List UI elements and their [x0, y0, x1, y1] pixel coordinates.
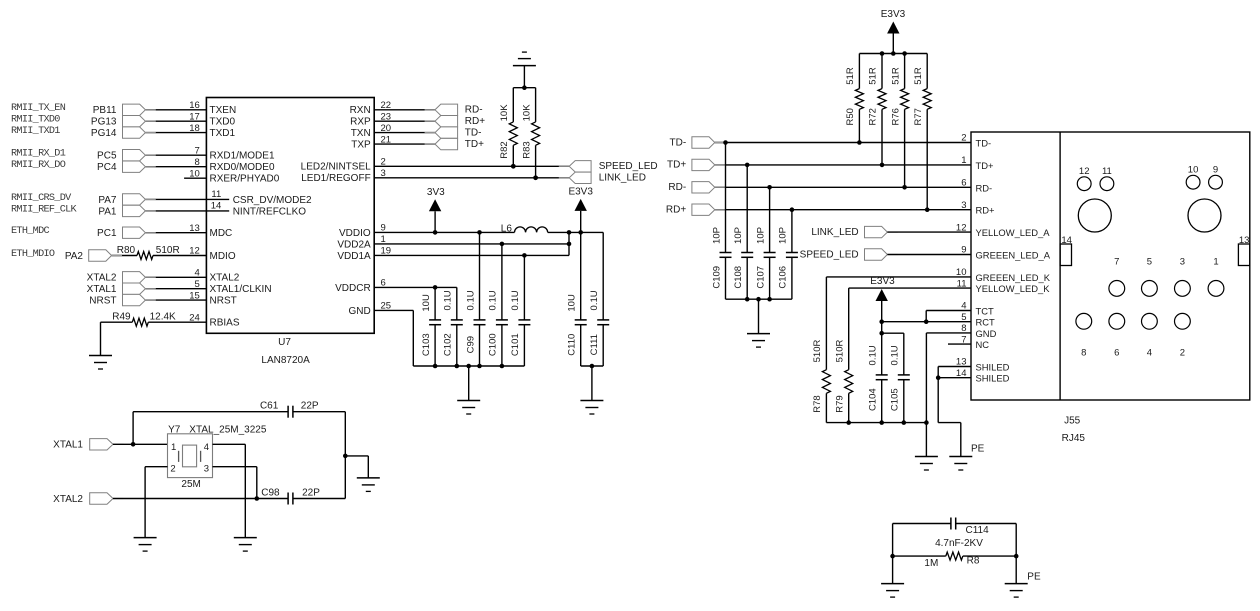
svg-text:CSR_DV/MODE2: CSR_DV/MODE2 [233, 195, 312, 206]
svg-text:RJ45: RJ45 [1062, 433, 1086, 444]
svg-text:10P: 10P [733, 227, 744, 244]
svg-text:8: 8 [1081, 348, 1086, 359]
svg-text:PC1: PC1 [97, 228, 117, 239]
svg-text:510R: 510R [834, 340, 845, 363]
svg-text:RMII_TXD1: RMII_TXD1 [11, 126, 60, 137]
svg-text:R49: R49 [112, 312, 131, 323]
svg-text:8: 8 [961, 323, 966, 334]
svg-text:C104: C104 [868, 388, 879, 411]
svg-text:PC4: PC4 [97, 162, 117, 173]
svg-text:PG13: PG13 [91, 117, 117, 128]
svg-text:16: 16 [189, 100, 200, 111]
svg-text:0.1U: 0.1U [465, 290, 476, 310]
svg-text:R79: R79 [834, 395, 845, 412]
svg-text:11: 11 [211, 189, 221, 200]
svg-text:SHILED: SHILED [976, 373, 1010, 384]
svg-text:PB11: PB11 [93, 105, 117, 116]
svg-text:2: 2 [961, 133, 966, 144]
svg-text:NRST: NRST [89, 296, 116, 307]
svg-text:NC: NC [976, 339, 990, 350]
svg-text:PE: PE [971, 444, 985, 455]
svg-text:PA2: PA2 [65, 251, 84, 262]
svg-text:10: 10 [1188, 164, 1199, 175]
svg-text:RCT: RCT [976, 317, 996, 328]
svg-text:GND: GND [348, 306, 370, 317]
svg-text:22: 22 [381, 100, 392, 111]
svg-text:18: 18 [189, 123, 200, 134]
svg-text:3: 3 [1180, 257, 1185, 268]
svg-text:10U: 10U [567, 294, 578, 312]
svg-text:R77: R77 [913, 108, 924, 125]
svg-text:15: 15 [189, 290, 200, 301]
svg-text:RMII_REF_CLK: RMII_REF_CLK [11, 204, 78, 215]
svg-text:R80: R80 [117, 245, 136, 256]
svg-text:5: 5 [961, 312, 966, 323]
svg-text:GREEEN_LED_K: GREEEN_LED_K [976, 272, 1051, 283]
svg-text:SPEED_LED: SPEED_LED [599, 161, 658, 172]
svg-text:C100: C100 [488, 333, 499, 356]
svg-text:10K: 10K [521, 104, 532, 122]
svg-text:4.7nF-2KV: 4.7nF-2KV [935, 538, 983, 549]
svg-text:24: 24 [189, 312, 200, 323]
svg-text:ETH_MDIO: ETH_MDIO [11, 249, 55, 260]
svg-text:PC5: PC5 [97, 151, 117, 162]
svg-text:RXN: RXN [350, 105, 371, 116]
svg-text:0.1U: 0.1U [868, 345, 879, 365]
svg-text:SPEED_LED: SPEED_LED [800, 249, 859, 260]
svg-text:51R: 51R [890, 67, 901, 85]
svg-text:R78: R78 [812, 395, 823, 412]
svg-text:C108: C108 [733, 266, 744, 289]
svg-text:RD+: RD+ [976, 205, 996, 216]
svg-text:VDD1A: VDD1A [337, 251, 371, 262]
svg-text:RD+: RD+ [666, 205, 686, 216]
svg-text:6: 6 [381, 278, 386, 289]
svg-text:0.1U: 0.1U [890, 345, 901, 365]
svg-text:6: 6 [1114, 348, 1119, 359]
svg-text:0.1U: 0.1U [488, 290, 499, 310]
svg-text:C99: C99 [465, 336, 476, 353]
svg-text:R76: R76 [890, 108, 901, 125]
svg-text:12: 12 [189, 246, 200, 257]
svg-text:1: 1 [1213, 257, 1218, 268]
svg-text:51R: 51R [845, 67, 856, 85]
svg-text:RD-: RD- [668, 182, 686, 193]
svg-text:NRST: NRST [210, 296, 237, 307]
svg-text:RMII_TX_EN: RMII_TX_EN [11, 103, 66, 114]
svg-text:7: 7 [961, 334, 966, 345]
svg-text:10P: 10P [755, 227, 766, 244]
svg-text:PG14: PG14 [91, 128, 117, 139]
svg-text:TXD1: TXD1 [210, 128, 236, 139]
svg-text:14: 14 [211, 201, 222, 212]
svg-text:1: 1 [381, 234, 386, 245]
svg-text:YELLOW_LED_A: YELLOW_LED_A [976, 227, 1051, 238]
svg-text:12: 12 [1079, 166, 1090, 177]
svg-text:51R: 51R [913, 67, 924, 85]
svg-text:XTAL2: XTAL2 [87, 273, 117, 284]
svg-text:2: 2 [1180, 348, 1185, 359]
svg-text:U7: U7 [278, 337, 291, 348]
svg-text:14: 14 [1061, 235, 1072, 246]
svg-text:11: 11 [957, 278, 967, 289]
svg-text:1: 1 [961, 155, 966, 166]
svg-text:C114: C114 [966, 525, 990, 536]
svg-text:C61: C61 [260, 401, 279, 412]
svg-text:C110: C110 [567, 334, 578, 356]
svg-text:ETH_MDC: ETH_MDC [11, 226, 49, 237]
svg-text:0.1U: 0.1U [443, 290, 454, 310]
svg-text:TD-: TD- [465, 127, 482, 138]
svg-text:1M: 1M [924, 558, 938, 569]
svg-text:C106: C106 [778, 266, 789, 289]
svg-text:TD-: TD- [976, 138, 992, 149]
svg-text:R83: R83 [521, 141, 532, 158]
svg-text:VDDIO: VDDIO [339, 228, 371, 239]
svg-text:14: 14 [956, 368, 967, 379]
svg-text:TCT: TCT [976, 306, 994, 317]
svg-text:TD+: TD+ [976, 160, 994, 171]
svg-text:5: 5 [195, 279, 200, 290]
svg-text:LINK_LED: LINK_LED [811, 227, 858, 238]
svg-text:RMII_RX_D1: RMII_RX_D1 [11, 149, 66, 160]
svg-text:RD-: RD- [976, 182, 993, 193]
svg-text:2: 2 [170, 464, 175, 475]
svg-text:3V3: 3V3 [427, 187, 445, 198]
svg-text:RXER/PHYAD0: RXER/PHYAD0 [210, 174, 280, 185]
svg-text:MDC: MDC [210, 228, 233, 239]
svg-text:LED1/REGOFF: LED1/REGOFF [301, 173, 370, 184]
svg-text:R8: R8 [967, 556, 980, 567]
svg-text:GREEEN_LED_A: GREEEN_LED_A [976, 250, 1051, 261]
svg-text:4: 4 [195, 268, 200, 279]
svg-text:PE: PE [1027, 572, 1041, 583]
svg-text:VDD2A: VDD2A [337, 239, 371, 250]
svg-text:TD+: TD+ [465, 139, 484, 150]
svg-text:PA7: PA7 [98, 195, 117, 206]
svg-text:51R: 51R [868, 67, 879, 85]
svg-text:C101: C101 [510, 333, 521, 356]
svg-text:RXD0/MODE0: RXD0/MODE0 [210, 162, 275, 173]
svg-text:E3V3: E3V3 [870, 276, 895, 287]
svg-text:0.1U: 0.1U [589, 290, 600, 310]
svg-text:C102: C102 [443, 333, 454, 356]
svg-text:LAN8720A: LAN8720A [261, 355, 310, 366]
svg-text:E3V3: E3V3 [568, 186, 593, 197]
svg-text:XTAL_25M_3225: XTAL_25M_3225 [189, 425, 267, 436]
svg-text:25: 25 [381, 301, 392, 312]
svg-text:RXD1/MODE1: RXD1/MODE1 [210, 151, 275, 162]
svg-text:13: 13 [1239, 235, 1250, 246]
svg-text:C103: C103 [421, 333, 432, 356]
svg-text:XTAL1: XTAL1 [53, 440, 83, 451]
svg-text:13: 13 [956, 357, 967, 368]
svg-text:3: 3 [204, 464, 209, 475]
svg-text:TXEN: TXEN [210, 105, 237, 116]
svg-text:R82: R82 [499, 141, 510, 158]
svg-text:L6: L6 [501, 224, 513, 235]
svg-text:E3V3: E3V3 [881, 9, 906, 20]
svg-text:10: 10 [189, 168, 200, 179]
svg-text:R72: R72 [868, 108, 879, 125]
svg-text:9: 9 [961, 245, 966, 256]
svg-text:8: 8 [195, 157, 200, 168]
svg-text:1: 1 [171, 442, 176, 453]
svg-text:3: 3 [381, 168, 386, 179]
svg-text:12: 12 [956, 222, 967, 233]
svg-text:7: 7 [1114, 257, 1119, 268]
svg-text:LINK_LED: LINK_LED [599, 173, 646, 184]
svg-text:21: 21 [381, 134, 392, 145]
svg-text:TXD0: TXD0 [210, 117, 236, 128]
svg-text:22P: 22P [301, 401, 319, 412]
svg-text:Y7: Y7 [168, 425, 181, 436]
svg-text:9: 9 [381, 223, 386, 234]
svg-text:3: 3 [961, 200, 966, 211]
svg-text:13: 13 [189, 223, 200, 234]
svg-text:C107: C107 [755, 266, 766, 289]
svg-text:510R: 510R [156, 245, 180, 256]
svg-text:4: 4 [961, 301, 966, 312]
svg-text:RXP: RXP [350, 117, 371, 128]
svg-text:4: 4 [204, 442, 209, 453]
svg-text:10P: 10P [711, 227, 722, 244]
svg-text:C105: C105 [890, 388, 901, 411]
svg-text:VDDCR: VDDCR [335, 283, 371, 294]
svg-text:C98: C98 [261, 487, 280, 498]
svg-text:NINT/REFCLKO: NINT/REFCLKO [233, 206, 307, 217]
svg-text:22P: 22P [302, 487, 320, 498]
svg-text:10K: 10K [499, 104, 510, 122]
svg-text:19: 19 [381, 246, 392, 257]
svg-text:10: 10 [956, 267, 967, 278]
svg-text:0.1U: 0.1U [510, 290, 521, 310]
svg-text:GND: GND [976, 328, 997, 339]
svg-text:23: 23 [381, 111, 392, 122]
svg-text:2: 2 [381, 157, 386, 168]
svg-text:XTAL2: XTAL2 [53, 494, 83, 505]
svg-text:YELLOW_LED_K: YELLOW_LED_K [976, 283, 1051, 294]
svg-text:RMII_TXD0: RMII_TXD0 [11, 115, 60, 126]
svg-text:TXN: TXN [351, 128, 371, 139]
svg-text:6: 6 [961, 178, 966, 189]
svg-text:11: 11 [1102, 166, 1112, 177]
svg-text:TD-: TD- [670, 137, 687, 148]
svg-text:PA1: PA1 [98, 206, 117, 217]
svg-text:5: 5 [1147, 257, 1152, 268]
svg-text:R50: R50 [845, 108, 856, 125]
svg-text:RMII_RX_DO: RMII_RX_DO [11, 160, 66, 171]
svg-text:4: 4 [1147, 348, 1152, 359]
svg-text:RD+: RD+ [465, 116, 485, 127]
svg-text:20: 20 [381, 123, 392, 134]
svg-text:XTAL2: XTAL2 [210, 273, 240, 284]
svg-text:C109: C109 [711, 266, 722, 289]
svg-text:17: 17 [189, 111, 200, 122]
svg-text:J55: J55 [1064, 416, 1081, 427]
svg-text:LED2/NINTSEL: LED2/NINTSEL [301, 162, 371, 173]
svg-text:XTAL1/CLKIN: XTAL1/CLKIN [210, 284, 272, 295]
svg-text:SHILED: SHILED [976, 362, 1010, 373]
svg-text:RMII_CRS_DV: RMII_CRS_DV [11, 193, 72, 204]
svg-text:MDIO: MDIO [210, 251, 236, 262]
svg-text:TD+: TD+ [667, 160, 686, 171]
svg-text:7: 7 [195, 145, 200, 156]
svg-text:RD-: RD- [465, 105, 483, 116]
svg-text:510R: 510R [812, 340, 823, 363]
svg-text:12.4K: 12.4K [150, 312, 176, 323]
svg-text:25M: 25M [181, 479, 200, 490]
svg-text:RBIAS: RBIAS [210, 318, 240, 329]
svg-text:TXP: TXP [351, 140, 371, 151]
svg-text:XTAL1: XTAL1 [87, 284, 117, 295]
svg-text:10P: 10P [778, 227, 789, 244]
svg-text:9: 9 [1213, 164, 1218, 175]
svg-text:10U: 10U [421, 294, 432, 312]
svg-text:C111: C111 [589, 334, 600, 355]
